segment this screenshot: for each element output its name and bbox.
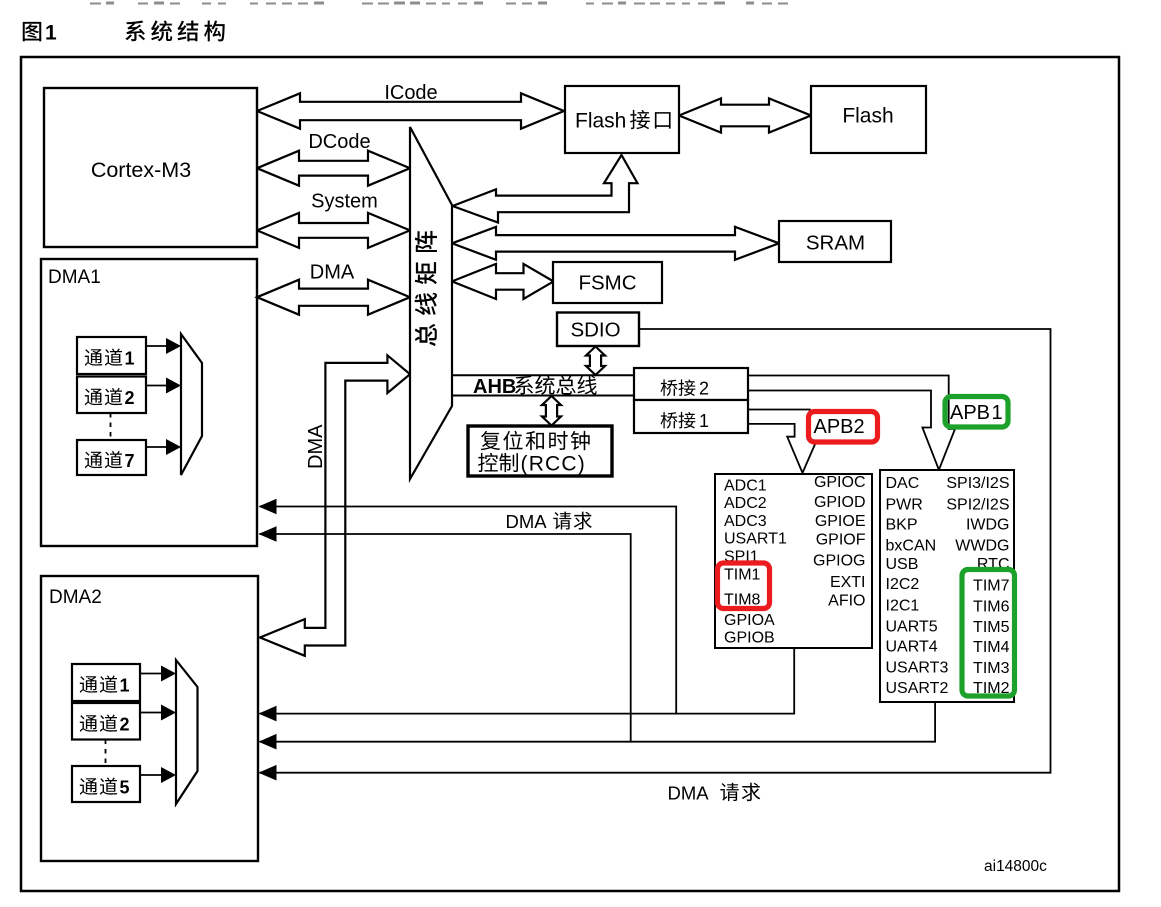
svg-text:ICode: ICode xyxy=(384,82,437,104)
svg-text:ADC1: ADC1 xyxy=(724,477,767,494)
svg-text:Cortex-M3: Cortex-M3 xyxy=(91,158,191,182)
svg-text:TIM4: TIM4 xyxy=(973,639,1010,656)
FSMC double arrow xyxy=(452,264,554,299)
DMA1 mux trapezoid xyxy=(181,334,202,475)
L-shaped hollow arrow bus matrix to Flash interface xyxy=(453,155,638,223)
svg-text:SRAM: SRAM xyxy=(806,232,865,255)
SDIO DMA request wire to DMA2 xyxy=(260,329,1051,773)
svg-text:GPIOE: GPIOE xyxy=(815,513,866,530)
svg-text:BKP: BKP xyxy=(886,517,918,534)
svg-text:TIM5: TIM5 xyxy=(973,619,1010,636)
svg-text:GPIOB: GPIOB xyxy=(724,630,775,647)
Flash interface box xyxy=(565,86,679,153)
svg-text:USART2: USART2 xyxy=(886,680,949,697)
dashed line between channel2 and channel7 xyxy=(110,413,112,440)
RCC box 复位和时钟控制 xyxy=(468,426,612,476)
svg-text:(RCC): (RCC) xyxy=(521,453,586,476)
L-shaped hollow DMA bus arrow (bus matrix to DMA2) xyxy=(260,355,410,656)
DMA2 channel 5 box 通道5 xyxy=(72,766,140,802)
svg-text:USART3: USART3 xyxy=(886,659,949,676)
figure caption 图1 系统结构 xyxy=(23,22,42,42)
svg-text:GPIOF: GPIOF xyxy=(816,532,866,549)
DMA2 channel 2 box 通道2 xyxy=(72,703,140,740)
green highlight around TIM7-TIM2 xyxy=(962,570,1015,697)
red highlight around TIM1/TIM8 xyxy=(718,563,770,609)
svg-text:ADC2: ADC2 xyxy=(724,495,767,512)
rotated label DMA on vertical bus xyxy=(305,424,327,469)
svg-text:AFIO: AFIO xyxy=(828,593,865,610)
System double arrow xyxy=(257,213,410,248)
dashed line between channel2 and channel5 xyxy=(105,740,107,767)
Flash interface to Flash double arrow xyxy=(679,98,811,132)
DMA2 channel connector arrows xyxy=(140,673,161,675)
svg-text:DMA1: DMA1 xyxy=(48,267,101,288)
svg-text:SPI2/I2S: SPI2/I2S xyxy=(946,497,1009,514)
svg-text:1: 1 xyxy=(699,411,709,431)
DMA1 channel 7 box 通道7 xyxy=(77,440,146,475)
svg-text:bxCAN: bxCAN xyxy=(886,537,937,554)
DMA1 channel 2 box 通道2 xyxy=(77,377,146,414)
svg-text:5: 5 xyxy=(120,778,130,798)
APB2 peripherals box xyxy=(715,474,872,648)
svg-text:1: 1 xyxy=(45,22,57,45)
svg-text:7: 7 xyxy=(125,451,135,471)
wire bridge1 to APB2 funnel right xyxy=(748,410,816,473)
wire bridge2 to APB1 funnel left xyxy=(748,391,939,470)
SRAM box xyxy=(779,221,891,262)
DMA2 mux trapezoid xyxy=(176,660,198,804)
svg-text:GPIOA: GPIOA xyxy=(724,612,775,629)
svg-text:2: 2 xyxy=(699,379,709,399)
bus matrix trapezoid 总线矩阵 xyxy=(410,127,452,479)
FSMC box xyxy=(553,262,662,303)
svg-text:1: 1 xyxy=(120,676,130,696)
RCC vertical double arrow xyxy=(542,396,561,426)
svg-text:DCode: DCode xyxy=(308,131,370,153)
DMA double arrow (DMA1 to bus matrix) xyxy=(257,280,410,315)
svg-text:1: 1 xyxy=(125,349,135,369)
svg-text:EXTI: EXTI xyxy=(830,574,866,591)
svg-text:TIM1: TIM1 xyxy=(724,567,761,584)
svg-text:2: 2 xyxy=(120,715,130,735)
DMA2 box xyxy=(41,576,258,861)
svg-text:TIM7: TIM7 xyxy=(973,578,1010,595)
Flash box xyxy=(811,86,926,153)
svg-text:DMA: DMA xyxy=(506,511,548,532)
svg-text:I2C2: I2C2 xyxy=(886,576,920,593)
svg-text:System: System xyxy=(311,191,378,213)
svg-text:IWDG: IWDG xyxy=(966,517,1010,534)
svg-text:SDIO: SDIO xyxy=(570,319,620,342)
svg-text:ADC3: ADC3 xyxy=(724,513,767,530)
DMA1 channel connector arrows xyxy=(146,345,166,347)
wire APB2 bottom to DMA2/DMA1 (DMA request) xyxy=(260,648,795,714)
svg-text:APB: APB xyxy=(950,402,990,424)
svg-text:GPIOG: GPIOG xyxy=(813,553,865,570)
svg-text:DMA2: DMA2 xyxy=(49,587,102,608)
svg-text:DMA: DMA xyxy=(668,783,710,804)
Cortex-M3 box xyxy=(44,88,257,247)
SDIO box xyxy=(557,313,639,347)
svg-text:DMA: DMA xyxy=(305,424,327,469)
DMA1 box xyxy=(41,259,257,546)
svg-text:1: 1 xyxy=(992,402,1003,424)
svg-text:UART5: UART5 xyxy=(886,619,938,636)
ICode double arrow xyxy=(257,93,564,128)
svg-text:USB: USB xyxy=(886,556,919,573)
svg-text:AHB: AHB xyxy=(473,376,516,398)
wire APB1 bottom to DMA2/DMA1 (DMA request) xyxy=(260,702,936,742)
svg-text:GPIOC: GPIOC xyxy=(814,474,866,491)
bridge2 box 桥接2 xyxy=(634,368,748,400)
svg-text:GPIOD: GPIOD xyxy=(814,494,866,511)
red highlight around APB2 label xyxy=(809,412,878,443)
svg-text:Flash: Flash xyxy=(575,110,626,133)
bridge1 box 桥接1 xyxy=(634,400,748,433)
SRAM double arrow xyxy=(452,227,779,260)
APB1 peripherals box xyxy=(880,470,1014,702)
svg-text:ai14800c: ai14800c xyxy=(984,858,1047,875)
top cut-off text line fragments xyxy=(90,3,101,5)
DMA2 channel 1 box 通道1 xyxy=(72,664,140,701)
svg-text:2: 2 xyxy=(125,388,135,408)
svg-text:Flash: Flash xyxy=(842,105,893,128)
DCode double arrow xyxy=(257,151,410,186)
svg-text:DMA: DMA xyxy=(310,262,355,284)
AHB bus lines xyxy=(452,374,634,376)
svg-text:FSMC: FSMC xyxy=(578,272,636,295)
DMA1 channel 1 box 通道1 xyxy=(77,337,146,374)
wire bridge2 to APB1 funnel right xyxy=(748,376,955,470)
svg-text:I2C1: I2C1 xyxy=(886,598,920,615)
svg-text:SPI3/I2S: SPI3/I2S xyxy=(946,475,1009,492)
svg-text:TIM3: TIM3 xyxy=(973,660,1010,677)
green highlight around APB1 label xyxy=(945,397,1008,428)
svg-text:USART1: USART1 xyxy=(724,531,787,548)
svg-text:APB2: APB2 xyxy=(814,416,865,438)
wire bridge1 to APB2 funnel left xyxy=(748,424,803,473)
svg-text:DAC: DAC xyxy=(886,475,920,492)
svg-text:WWDG: WWDG xyxy=(955,537,1009,554)
svg-text:UART4: UART4 xyxy=(886,639,938,656)
svg-text:PWR: PWR xyxy=(886,497,923,514)
svg-text:TIM6: TIM6 xyxy=(973,598,1010,615)
SDIO vertical double arrow xyxy=(586,347,605,376)
